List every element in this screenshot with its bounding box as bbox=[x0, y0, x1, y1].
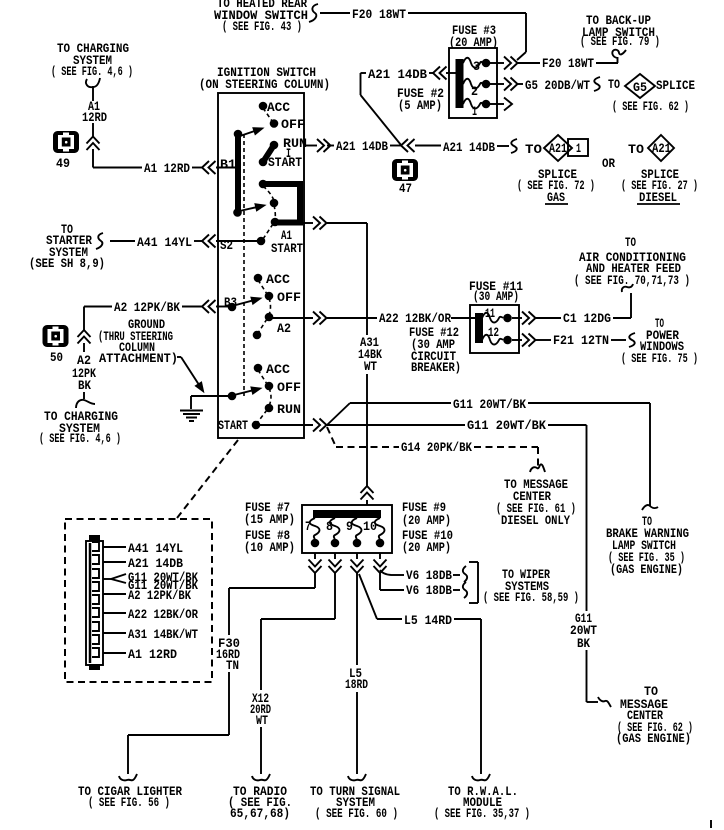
svg-text:( SEE FIG. 56 ): ( SEE FIG. 56 ) bbox=[88, 795, 170, 810]
svg-text:A41 14YL: A41 14YL bbox=[128, 541, 183, 556]
svg-text:(GAS ENGINE): (GAS ENGINE) bbox=[616, 731, 691, 746]
svg-text:B1: B1 bbox=[220, 157, 236, 172]
svg-text:(20 AMP): (20 AMP) bbox=[402, 540, 451, 555]
svg-text:TO: TO bbox=[625, 235, 636, 250]
svg-text:( SEE FIG. 43 ): ( SEE FIG. 43 ) bbox=[222, 19, 302, 34]
svg-text:(ON STEERING COLUMN): (ON STEERING COLUMN) bbox=[199, 77, 330, 92]
svg-text:(10 AMP): (10 AMP) bbox=[244, 540, 295, 555]
svg-text:ACC: ACC bbox=[266, 362, 290, 377]
svg-text:S2: S2 bbox=[220, 238, 233, 253]
svg-text:1: 1 bbox=[576, 141, 581, 156]
svg-text:2: 2 bbox=[471, 84, 478, 99]
svg-text:12RD: 12RD bbox=[82, 110, 107, 125]
svg-text:DIESEL: DIESEL bbox=[639, 190, 677, 205]
svg-text:( SEE FIG. 70,71,73 ): ( SEE FIG. 70,71,73 ) bbox=[574, 273, 690, 288]
svg-text:( SEE FIG. 60 ): ( SEE FIG. 60 ) bbox=[315, 806, 398, 821]
svg-text:A21 14DB: A21 14DB bbox=[128, 556, 183, 571]
svg-text:A2: A2 bbox=[277, 321, 291, 336]
svg-text:8: 8 bbox=[326, 519, 333, 534]
svg-text:A2 12PK/BK: A2 12PK/BK bbox=[128, 588, 191, 603]
svg-text:A21 14DB: A21 14DB bbox=[443, 140, 495, 155]
svg-text:G5: G5 bbox=[633, 80, 647, 95]
svg-text:WT: WT bbox=[256, 713, 268, 728]
svg-text:V6 18DB: V6 18DB bbox=[406, 568, 452, 583]
svg-text:TO: TO bbox=[525, 142, 542, 157]
svg-text:11: 11 bbox=[485, 306, 495, 321]
svg-text:OFF: OFF bbox=[277, 380, 301, 395]
svg-text:GAS: GAS bbox=[547, 190, 565, 205]
svg-text:( SEE FIG. 4,6 ): ( SEE FIG. 4,6 ) bbox=[51, 64, 133, 79]
svg-text:BK: BK bbox=[78, 378, 91, 393]
svg-text:( SEE FIG. 79 ): ( SEE FIG. 79 ) bbox=[580, 34, 660, 49]
svg-text:OFF: OFF bbox=[277, 290, 301, 305]
svg-text:( SEE FIG. 58,59 ): ( SEE FIG. 58,59 ) bbox=[483, 590, 579, 605]
svg-text:( SEE FIG. 62 ): ( SEE FIG. 62 ) bbox=[612, 99, 689, 114]
svg-text:G11 20WT/BK: G11 20WT/BK bbox=[453, 397, 526, 412]
svg-text:RUN: RUN bbox=[277, 402, 301, 417]
svg-text:TN: TN bbox=[226, 658, 239, 673]
svg-text:50: 50 bbox=[50, 350, 63, 365]
svg-text:3: 3 bbox=[473, 59, 480, 74]
svg-text:TO: TO bbox=[608, 77, 620, 92]
svg-text:10: 10 bbox=[363, 519, 377, 534]
svg-text:BREAKER): BREAKER) bbox=[411, 360, 461, 375]
svg-text:(SEE SH 8,9): (SEE SH 8,9) bbox=[29, 256, 105, 271]
svg-text:49: 49 bbox=[56, 156, 70, 171]
svg-text:47: 47 bbox=[399, 181, 412, 196]
svg-text:(20 AMP): (20 AMP) bbox=[402, 513, 451, 528]
svg-text:A1 12RD: A1 12RD bbox=[144, 161, 190, 176]
svg-text:( SEE FIG. 4,6 ): ( SEE FIG. 4,6 ) bbox=[39, 431, 121, 446]
svg-text:DIESEL ONLY: DIESEL ONLY bbox=[501, 513, 570, 528]
svg-text:A2 12PK/BK: A2 12PK/BK bbox=[114, 300, 180, 315]
svg-text:(5 AMP): (5 AMP) bbox=[398, 98, 442, 113]
svg-text:BK: BK bbox=[577, 636, 590, 651]
svg-text:( SEE FIG. 35,37 ): ( SEE FIG. 35,37 ) bbox=[434, 806, 530, 821]
svg-text:(GAS ENGINE): (GAS ENGINE) bbox=[610, 562, 683, 577]
svg-text:SPLICE: SPLICE bbox=[656, 78, 695, 93]
svg-text:TO: TO bbox=[628, 142, 644, 157]
svg-text:G11 20WT/BK: G11 20WT/BK bbox=[467, 418, 546, 433]
svg-text:START: START bbox=[268, 155, 302, 170]
svg-text:F20 18WT: F20 18WT bbox=[352, 7, 406, 22]
svg-text:ATTACHMENT): ATTACHMENT) bbox=[99, 351, 178, 366]
svg-text:1: 1 bbox=[472, 104, 477, 119]
svg-text:A21: A21 bbox=[652, 141, 671, 156]
svg-text:A21: A21 bbox=[549, 141, 567, 156]
svg-text:F21 12TN: F21 12TN bbox=[553, 333, 609, 348]
svg-text:ACC: ACC bbox=[266, 272, 290, 287]
svg-text:A41 14YL: A41 14YL bbox=[137, 235, 192, 250]
svg-text:18RD: 18RD bbox=[345, 677, 368, 692]
svg-text:START: START bbox=[218, 418, 248, 433]
svg-text:9: 9 bbox=[346, 519, 353, 534]
svg-text:OFF: OFF bbox=[281, 117, 305, 132]
svg-text:12: 12 bbox=[488, 325, 499, 340]
svg-text:A22 12BK/OR: A22 12BK/OR bbox=[379, 311, 451, 326]
svg-text:G14 20PK/BK: G14 20PK/BK bbox=[401, 440, 472, 455]
svg-text:A21 14DB: A21 14DB bbox=[336, 139, 388, 154]
svg-text:ACC: ACC bbox=[267, 100, 290, 115]
svg-text:A22 12BK/OR: A22 12BK/OR bbox=[128, 607, 198, 622]
svg-text:A1 12RD: A1 12RD bbox=[128, 647, 177, 662]
svg-text:B3: B3 bbox=[224, 295, 237, 310]
svg-text:L5 14RD: L5 14RD bbox=[404, 613, 452, 628]
svg-text:A31 14BK/WT: A31 14BK/WT bbox=[128, 627, 198, 642]
svg-text:( SEE FIG. 75 ): ( SEE FIG. 75 ) bbox=[621, 351, 698, 366]
svg-text:OR: OR bbox=[602, 156, 615, 171]
svg-text:(15 AMP): (15 AMP) bbox=[244, 512, 295, 527]
svg-text:7: 7 bbox=[305, 519, 311, 534]
svg-text:C1 12DG: C1 12DG bbox=[563, 311, 611, 326]
svg-text:65,67,68): 65,67,68) bbox=[230, 806, 290, 821]
svg-text:F20 18WT: F20 18WT bbox=[542, 56, 594, 71]
svg-text:(20 AMP): (20 AMP) bbox=[449, 35, 498, 50]
svg-text:WT: WT bbox=[364, 359, 377, 374]
svg-text:(30 AMP): (30 AMP) bbox=[473, 289, 519, 304]
svg-text:G5 20DB/WT: G5 20DB/WT bbox=[525, 78, 590, 93]
svg-text:START: START bbox=[271, 241, 303, 256]
svg-text:A21 14DB: A21 14DB bbox=[368, 67, 427, 82]
svg-text:V6 18DB: V6 18DB bbox=[406, 583, 452, 598]
